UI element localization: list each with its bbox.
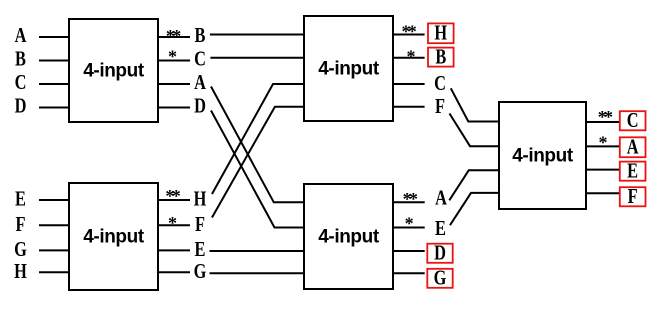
svg-text:E: E	[627, 160, 638, 183]
svg-text:H: H	[434, 22, 447, 45]
final output box D (red)	[427, 242, 452, 265]
final output box C (red)	[620, 109, 646, 132]
wire U1 output stub B	[157, 36, 190, 38]
svg-text:*: *	[599, 133, 608, 153]
svg-text:G: G	[434, 267, 447, 290]
svg-text:A: A	[15, 24, 27, 47]
wire input B to U1	[39, 60, 70, 62]
svg-text:H: H	[194, 188, 207, 211]
svg-text:*: *	[407, 46, 416, 66]
wire U3 output stub	[392, 106, 425, 108]
wire U3 output stub	[392, 83, 425, 85]
svg-text:B: B	[435, 46, 446, 69]
wire H from U2 up to U3 input 3 (crossing)	[212, 84, 305, 194]
wire E from U4 up to U5 input 4	[450, 193, 500, 225]
svg-text:4-input: 4-input	[83, 61, 145, 82]
wire U1 output stub A	[157, 83, 190, 85]
svg-text:F: F	[195, 213, 205, 236]
4-input block U5 (right)	[499, 102, 586, 209]
wire A from U1 down to U4 input 1 (crossing)	[211, 87, 305, 203]
wire U5 output stub	[585, 192, 620, 194]
svg-text:*: *	[168, 213, 177, 233]
svg-text:E: E	[195, 238, 206, 261]
svg-text:C: C	[627, 109, 639, 132]
svg-text:G: G	[14, 238, 27, 261]
wire U3 output stub	[392, 57, 425, 59]
4-input block U4 (bottom-middle)	[304, 184, 393, 289]
svg-text:F: F	[15, 213, 25, 236]
svg-text:C: C	[194, 48, 206, 71]
wire U1 output stub C	[157, 60, 190, 62]
wire U2 output stub F	[157, 224, 190, 226]
svg-text:E: E	[15, 188, 26, 211]
wire G from U2 to U4 input 4	[210, 272, 306, 274]
wire B from U1 to U3 input 1	[210, 34, 305, 36]
svg-text:E: E	[435, 217, 446, 240]
svg-text:4-input: 4-input	[83, 227, 145, 248]
svg-text:B: B	[15, 48, 26, 71]
svg-text:A: A	[627, 136, 639, 159]
svg-text:F: F	[628, 185, 638, 208]
wire U5 output stub	[585, 121, 620, 123]
svg-text:4-input: 4-input	[318, 227, 380, 248]
wire U2 output stub E	[157, 249, 190, 251]
wire U2 output stub G	[157, 271, 190, 273]
wire F from U2 up to U3 input 4 (crossing)	[212, 107, 305, 218]
svg-text:A: A	[435, 187, 447, 210]
wire F from U3 down to U5 input 2	[450, 114, 501, 147]
wire input C to U1	[39, 83, 70, 85]
wire input H to U2	[39, 271, 70, 273]
svg-text:D: D	[194, 95, 206, 118]
4-input block U1 (top-left)	[69, 19, 158, 122]
wire input D to U1	[39, 107, 70, 109]
svg-text:4-input: 4-input	[512, 146, 574, 167]
svg-text:B: B	[195, 24, 206, 47]
wire C from U3 down to U5 input 1	[451, 88, 500, 121]
svg-text:D: D	[434, 242, 446, 265]
wire U1 output stub D	[157, 107, 190, 109]
final output box H (red)	[428, 22, 454, 45]
4-input block U3 (top-middle)	[304, 16, 393, 121]
wire U4 output stub	[392, 201, 425, 203]
final output box A (red)	[620, 136, 646, 159]
wire U5 output stub	[585, 145, 620, 147]
final output box F (red)	[620, 185, 646, 208]
wire U3 output stub	[392, 34, 425, 36]
wire input F to U2	[39, 224, 70, 226]
wire input G to U2	[39, 249, 70, 251]
final output box E (red)	[620, 160, 646, 183]
wire A from U4 up to U5 input 3	[449, 170, 500, 200]
svg-text:G: G	[194, 260, 207, 283]
svg-text:A: A	[194, 71, 206, 94]
wire input E to U2	[39, 199, 70, 201]
wire input A to U1	[39, 36, 70, 38]
wire U4 output stub	[392, 250, 425, 252]
svg-text:*: *	[168, 47, 177, 67]
wire U5 output stub	[585, 169, 620, 171]
svg-text:C: C	[434, 72, 446, 95]
final output box G (red)	[427, 267, 452, 290]
wire E from U2 to U4 input 3	[210, 250, 306, 252]
svg-text:D: D	[15, 95, 27, 118]
wire U4 output stub	[392, 272, 425, 274]
svg-text:*: *	[405, 214, 414, 234]
wire U4 output stub	[392, 227, 425, 229]
4-input block U2 (bottom-left)	[69, 183, 158, 290]
wire C from U1 to U3 input 2	[210, 57, 305, 59]
svg-text:4-input: 4-input	[318, 59, 380, 80]
wire U2 output stub H	[157, 199, 190, 201]
svg-text:H: H	[14, 260, 27, 283]
final output box B (red)	[428, 46, 454, 69]
svg-text:C: C	[15, 71, 27, 94]
svg-text:F: F	[435, 95, 445, 118]
wire D from U1 down to U4 input 2 (crossing)	[211, 111, 305, 228]
